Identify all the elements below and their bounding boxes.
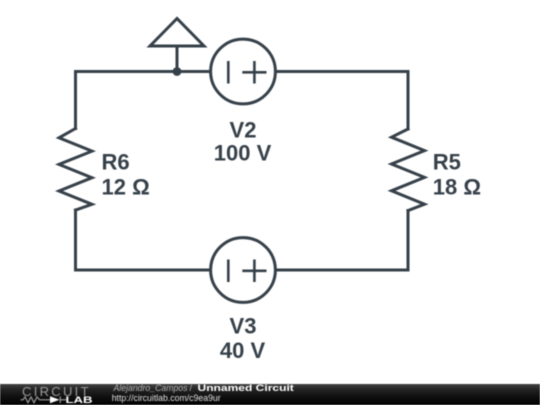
- svg-text:V2: V2: [230, 117, 257, 142]
- svg-text:18 Ω: 18 Ω: [433, 174, 481, 199]
- svg-text:Unnamed Circuit: Unnamed Circuit: [198, 383, 294, 393]
- svg-text:40 V: 40 V: [220, 338, 266, 363]
- svg-text:R5: R5: [433, 149, 461, 174]
- svg-text:LAB: LAB: [66, 395, 93, 405]
- svg-text:12 Ω: 12 Ω: [102, 174, 150, 199]
- svg-text:R6: R6: [102, 149, 130, 174]
- svg-text:V3: V3: [230, 313, 257, 338]
- svg-text:http://circuitlab.com/c9ea9ur: http://circuitlab.com/c9ea9ur: [112, 393, 221, 403]
- svg-text:Alejandro_Campos: Alejandro_Campos: [113, 383, 188, 393]
- svg-text:100 V: 100 V: [214, 140, 272, 165]
